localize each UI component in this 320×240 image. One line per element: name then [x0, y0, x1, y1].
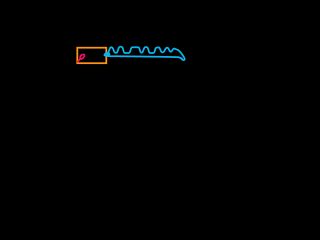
pink leaf doodle (handle hole): [78, 54, 85, 61]
blue saw blade outline (bumpy top + base line + start knot + end curl): [104, 47, 184, 60]
orange rectangle (saw handle): [77, 48, 106, 64]
